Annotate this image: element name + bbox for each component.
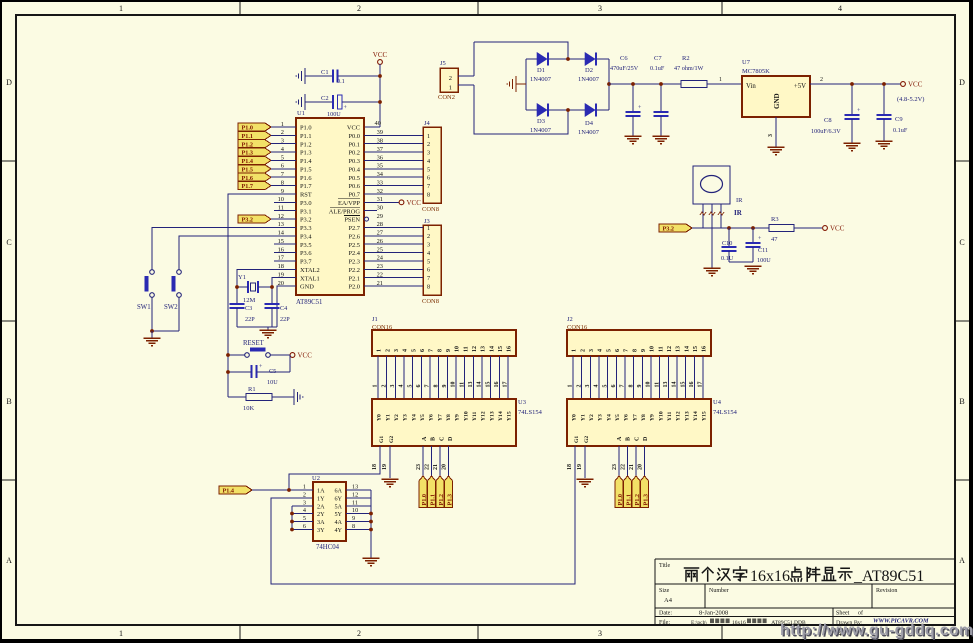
svg-text:30: 30	[377, 205, 383, 212]
svg-text:Y5: Y5	[420, 414, 426, 421]
svg-text:6: 6	[615, 349, 621, 352]
IR leg 3	[720, 204, 722, 228]
svg-text:7: 7	[620, 385, 626, 388]
mcu U1 AT89C51	[296, 110, 364, 306]
svg-text:0.1: 0.1	[337, 78, 345, 85]
svg-text:P2.7: P2.7	[348, 225, 360, 232]
svg-text:P1.5: P1.5	[300, 166, 312, 173]
svg-text:C1: C1	[321, 69, 329, 76]
svg-text:R3: R3	[771, 216, 779, 223]
svg-text:P0.1: P0.1	[348, 141, 360, 148]
svg-text:P1.4: P1.4	[223, 488, 235, 495]
svg-text:11: 11	[658, 346, 664, 352]
svg-text:22P: 22P	[245, 316, 255, 323]
svg-text:Y8: Y8	[641, 414, 647, 421]
svg-text:CON8: CON8	[422, 298, 439, 305]
junction bridge output	[607, 82, 611, 86]
wires U1 P0 bus to J4	[364, 135, 423, 194]
svg-text:GND: GND	[300, 284, 314, 291]
svg-text:Y6: Y6	[624, 414, 630, 421]
svg-text:G1: G1	[379, 436, 385, 443]
switch SW1	[137, 270, 154, 311]
svg-text:P0.7: P0.7	[348, 192, 360, 199]
svg-text:10: 10	[650, 346, 656, 352]
stub pin10	[274, 201, 296, 203]
svg-text:P2.1: P2.1	[348, 275, 360, 282]
svg-text:Y12: Y12	[481, 411, 487, 421]
ground IR middle leg	[704, 267, 721, 269]
svg-text:U1: U1	[297, 110, 305, 117]
wires U3 ABCD with pin numbers	[416, 446, 449, 476]
svg-text:5: 5	[407, 385, 413, 388]
svg-text:P1.3: P1.3	[300, 150, 312, 157]
svg-text:P2.6: P2.6	[348, 233, 360, 240]
ground SW	[151, 331, 153, 338]
resistor R3 47	[769, 216, 794, 243]
svg-text:C2: C2	[321, 95, 329, 102]
svg-text:Y9: Y9	[455, 414, 461, 421]
svg-text:9: 9	[442, 385, 448, 388]
svg-text:2: 2	[357, 629, 361, 638]
svg-text:http://www.gu-gddq.com: http://www.gu-gddq.com	[780, 622, 973, 639]
svg-text:7: 7	[427, 183, 430, 190]
svg-text:8: 8	[632, 349, 638, 352]
svg-text:P1.2: P1.2	[438, 494, 445, 506]
svg-text:IR: IR	[736, 197, 743, 204]
svg-text:Y13: Y13	[684, 411, 690, 421]
wire U4 G2 pin19 to ground	[584, 446, 586, 478]
svg-text:P0.4: P0.4	[348, 166, 360, 173]
svg-text:P1.1: P1.1	[242, 133, 254, 140]
svg-text:Y1: Y1	[385, 414, 391, 421]
svg-text:File:: File:	[659, 620, 670, 626]
svg-text:B: B	[959, 397, 964, 406]
ground R1 sideways	[293, 389, 295, 405]
junction Y1 right	[270, 285, 274, 289]
svg-text:_AT89C51: _AT89C51	[853, 568, 924, 585]
svg-text:P1.0: P1.0	[617, 494, 624, 506]
svg-text:Y12: Y12	[676, 411, 682, 421]
svg-text:U7: U7	[742, 59, 751, 66]
svg-text:RST: RST	[300, 192, 312, 199]
junction U2 pin9	[369, 520, 373, 524]
svg-text:P0.3: P0.3	[348, 158, 360, 165]
net label P3.2 (IR)	[659, 224, 692, 232]
svg-text:5: 5	[602, 385, 608, 388]
svg-text:P1.0: P1.0	[300, 125, 312, 132]
svg-text:15: 15	[680, 382, 686, 388]
svg-text:Y10: Y10	[658, 411, 664, 421]
capacitor C1 0.1 with ground	[296, 68, 380, 85]
svg-text:4: 4	[403, 349, 409, 352]
svg-text:D: D	[448, 436, 454, 441]
svg-text:6: 6	[427, 175, 430, 182]
svg-text:19: 19	[382, 464, 388, 470]
capacitor C9 0.1uF	[877, 84, 908, 141]
U2 left pin numbers	[303, 484, 306, 530]
junction SW1 bottom	[150, 329, 154, 333]
svg-text:A: A	[959, 556, 965, 565]
svg-text:P1.1: P1.1	[429, 494, 436, 506]
svg-text:P3.0: P3.0	[300, 200, 312, 207]
svg-text:Y1: Y1	[580, 414, 586, 421]
svg-text:1: 1	[373, 385, 379, 388]
connector J2 CON16	[567, 316, 711, 356]
net label P1.4	[219, 486, 252, 494]
svg-text:6: 6	[416, 385, 422, 388]
svg-text:P2.4: P2.4	[348, 250, 360, 257]
svg-text:2: 2	[580, 349, 586, 352]
svg-text:4: 4	[594, 385, 600, 388]
svg-text:3: 3	[427, 242, 430, 249]
svg-text:2: 2	[303, 492, 306, 499]
junction reset left	[226, 353, 230, 357]
svg-text:29: 29	[377, 213, 383, 220]
wire P1.4 to U2 pin1	[252, 489, 313, 491]
svg-text:1N4007: 1N4007	[578, 129, 600, 136]
svg-text:1: 1	[568, 385, 574, 388]
svg-text:P3.4: P3.4	[300, 233, 312, 240]
svg-text:D1: D1	[537, 67, 545, 74]
wire pin31 EA to VCC	[364, 201, 399, 203]
capacitor C6 470uF/25V	[610, 55, 642, 136]
svg-text:EA/VPP: EA/VPP	[338, 200, 360, 207]
svg-text:10: 10	[646, 382, 652, 388]
svg-text:P1.1: P1.1	[300, 133, 312, 140]
diode D2 1N4007	[578, 53, 600, 84]
svg-text:AT89C51: AT89C51	[296, 299, 322, 306]
svg-text:P0.6: P0.6	[348, 183, 360, 190]
svg-text:Y13: Y13	[489, 411, 495, 421]
svg-text:20: 20	[441, 464, 447, 470]
svg-text:4Y: 4Y	[334, 527, 342, 534]
svg-text:23: 23	[416, 464, 422, 470]
svg-text:P0.5: P0.5	[348, 175, 360, 182]
stub pin16	[274, 252, 296, 254]
svg-text:5: 5	[427, 258, 430, 265]
svg-text:13: 13	[663, 382, 669, 388]
svg-text:P1.7: P1.7	[300, 183, 312, 190]
svg-text:P1.6: P1.6	[242, 175, 254, 182]
svg-text:18: 18	[567, 464, 573, 470]
svg-text:7: 7	[429, 349, 435, 352]
svg-text:22P: 22P	[280, 316, 290, 323]
svg-text:P3.3: P3.3	[300, 225, 312, 232]
U1 left pin numbers	[278, 121, 285, 287]
svg-text:P1.4: P1.4	[300, 158, 312, 165]
svg-text:Y2: Y2	[394, 414, 400, 421]
svg-text:P1.2: P1.2	[634, 494, 641, 506]
junction C9	[882, 82, 886, 86]
svg-text:8-Jan-2008: 8-Jan-2008	[699, 610, 728, 617]
svg-text:Revision: Revision	[876, 588, 897, 594]
svg-text:P3.2: P3.2	[300, 217, 312, 224]
svg-text:CON8: CON8	[422, 206, 439, 213]
switch SW2	[164, 270, 181, 311]
svg-text:MC7805K: MC7805K	[742, 68, 770, 75]
svg-text:2: 2	[427, 233, 430, 240]
svg-text:1: 1	[572, 349, 578, 352]
svg-text:8: 8	[433, 385, 439, 388]
svg-text:IR: IR	[734, 209, 743, 217]
ground C11	[745, 265, 762, 267]
svg-text:8: 8	[437, 349, 443, 352]
power port VCC (U1)	[378, 60, 383, 65]
svg-text:13: 13	[676, 346, 682, 352]
IR receiver module	[693, 166, 743, 217]
svg-text:VCC: VCC	[908, 81, 923, 89]
power port VCC supply output	[901, 82, 906, 87]
svg-text:P2.0: P2.0	[348, 284, 360, 291]
svg-text:XTAL1: XTAL1	[300, 275, 320, 282]
svg-text:Y14: Y14	[693, 411, 699, 421]
svg-text:SW2: SW2	[164, 304, 178, 311]
svg-text:C9: C9	[895, 116, 903, 123]
svg-text:Y15: Y15	[507, 411, 513, 421]
svg-text:D: D	[959, 78, 965, 87]
svg-text:18: 18	[372, 464, 378, 470]
svg-text:23: 23	[612, 464, 618, 470]
svg-text:1: 1	[427, 133, 430, 140]
svg-text:U3: U3	[518, 399, 526, 406]
svg-text:47 ohm/1W: 47 ohm/1W	[674, 65, 704, 72]
svg-text:2: 2	[357, 4, 361, 13]
svg-text:C: C	[634, 437, 640, 441]
svg-text:Y8: Y8	[446, 414, 452, 421]
bridge rails	[525, 59, 527, 110]
svg-text:G1: G1	[574, 436, 580, 443]
svg-text:74LS154: 74LS154	[713, 409, 738, 416]
connector J1 CON16	[372, 316, 516, 356]
svg-text:P1.0: P1.0	[421, 494, 428, 506]
wires U2 pins3-6 tied	[292, 506, 313, 530]
svg-text:16: 16	[689, 382, 695, 388]
svg-text:P3.5: P3.5	[300, 242, 312, 249]
svg-text:P2.5: P2.5	[348, 242, 360, 249]
junction bridge top	[566, 57, 570, 61]
resistor R1 10K	[228, 386, 294, 412]
svg-text:10U: 10U	[267, 379, 278, 386]
svg-text:Y3: Y3	[598, 414, 604, 421]
svg-text:8: 8	[427, 191, 430, 198]
sheet title text	[685, 567, 925, 585]
svg-text:ALE/PROG: ALE/PROG	[329, 208, 361, 215]
svg-text:P1.2: P1.2	[300, 141, 312, 148]
svg-text:P3.2: P3.2	[242, 217, 254, 224]
svg-text:P1.7: P1.7	[242, 183, 254, 190]
svg-text:Vin: Vin	[746, 83, 756, 90]
svg-text:B: B	[626, 437, 632, 441]
wire R3 to VCC	[794, 227, 822, 229]
svg-text:1N4007: 1N4007	[530, 76, 552, 83]
svg-text:1Y: 1Y	[317, 495, 325, 502]
svg-text:Size: Size	[659, 588, 670, 594]
svg-text:P2.3: P2.3	[348, 259, 360, 266]
svg-text:Number: Number	[709, 588, 729, 594]
svg-text:P1.6: P1.6	[300, 175, 312, 182]
ground U7	[768, 146, 785, 148]
svg-text:CON16: CON16	[372, 324, 393, 331]
svg-text:Y7: Y7	[632, 414, 638, 421]
svg-text:12: 12	[472, 346, 478, 352]
junction U2 pin5	[290, 520, 294, 524]
svg-text:D3: D3	[537, 118, 545, 125]
svg-text:16: 16	[507, 346, 513, 352]
power port VCC (IR)	[823, 226, 828, 231]
decoder U3 74LS154	[372, 399, 543, 446]
svg-text:1: 1	[119, 4, 123, 13]
svg-text:3: 3	[598, 4, 602, 13]
capacitor C10 0.1U	[721, 228, 737, 262]
svg-text:47: 47	[771, 236, 778, 243]
U1 right pin names	[329, 125, 361, 291]
svg-text:1: 1	[119, 629, 123, 638]
capacitor C3 22P	[230, 304, 256, 327]
svg-text:D: D	[643, 436, 649, 441]
svg-text:2: 2	[427, 141, 430, 148]
wire XTAL2 pin18 to crystal	[237, 269, 296, 304]
connector J3 CON8	[422, 218, 441, 305]
junction U2 pin1	[287, 488, 291, 492]
svg-text:5A: 5A	[334, 503, 342, 510]
svg-text:J4: J4	[424, 120, 431, 127]
svg-text:Y4: Y4	[606, 414, 612, 421]
wire GND pin20 down	[277, 286, 296, 327]
svg-text:P1.4: P1.4	[242, 158, 254, 165]
svg-text:6A: 6A	[334, 487, 342, 494]
stub pin11	[274, 210, 296, 212]
junction C6	[631, 82, 635, 86]
svg-text:4: 4	[838, 4, 842, 13]
wire U3 G1 pin18 to U2	[289, 446, 380, 490]
svg-text:100U: 100U	[327, 111, 341, 118]
svg-text:17: 17	[503, 382, 509, 388]
svg-text:10K: 10K	[243, 405, 255, 412]
wire U7 pin3 to ground	[775, 117, 777, 147]
wires J1 to U3	[373, 356, 509, 399]
svg-text:6Y: 6Y	[334, 495, 342, 502]
svg-text:14: 14	[489, 346, 495, 352]
svg-text:P1.2: P1.2	[242, 141, 254, 148]
wire VCC to C5	[289, 355, 291, 372]
svg-text:1: 1	[377, 349, 383, 352]
ground crystal	[267, 327, 269, 330]
junction bridge bottom	[566, 108, 570, 112]
svg-text:RESET: RESET	[243, 340, 265, 347]
svg-text:1N4007: 1N4007	[530, 127, 552, 134]
svg-text:J5: J5	[440, 60, 446, 67]
junction C10	[727, 226, 731, 230]
svg-text:Y0: Y0	[377, 414, 383, 421]
wires U4 ABCD with pin numbers	[612, 446, 645, 476]
diode D4 1N4007	[578, 104, 600, 137]
file path text	[691, 619, 806, 627]
svg-text:74LS154: 74LS154	[518, 409, 543, 416]
watermark	[780, 622, 973, 641]
svg-text:Y2: Y2	[589, 414, 595, 421]
svg-text:21: 21	[629, 464, 635, 470]
capacitor C11 100U	[729, 228, 771, 264]
svg-text:11: 11	[459, 382, 465, 388]
junction C5 left	[226, 370, 230, 374]
svg-text:22: 22	[620, 464, 626, 470]
wire SW bottoms to ground	[151, 298, 153, 332]
svg-text:Y6: Y6	[429, 414, 435, 421]
junction C2-VCC	[378, 100, 382, 104]
svg-text:A: A	[422, 436, 428, 441]
svg-text:C10: C10	[722, 240, 732, 247]
svg-text:4: 4	[427, 158, 430, 165]
svg-text:100uF/6.3V: 100uF/6.3V	[811, 128, 841, 135]
stub pin30	[364, 210, 377, 212]
reset button RESET	[243, 340, 270, 357]
svg-text:C: C	[439, 437, 445, 441]
wire DC rail	[609, 83, 681, 85]
wire VCC to U1 pin 40	[379, 64, 381, 127]
junction U2 pin10	[369, 512, 373, 516]
svg-text:B: B	[6, 397, 11, 406]
wire pin13 to SW1	[152, 227, 296, 269]
svg-text:of: of	[858, 610, 863, 617]
svg-text:5: 5	[427, 166, 430, 173]
svg-text:15: 15	[485, 382, 491, 388]
svg-text:16: 16	[494, 382, 500, 388]
svg-text:Y3: Y3	[403, 414, 409, 421]
IR pin squiggles	[700, 212, 706, 215]
svg-text:Sheet: Sheet	[836, 611, 850, 617]
svg-text:5: 5	[411, 349, 417, 352]
svg-text:6: 6	[611, 385, 617, 388]
svg-text:P1.1: P1.1	[625, 494, 632, 506]
capacitor C4 22P	[265, 304, 291, 327]
svg-text:6: 6	[420, 349, 426, 352]
svg-text:VCC: VCC	[407, 199, 422, 207]
svg-text:Y14: Y14	[498, 411, 504, 421]
capacitor C5 10U	[228, 364, 290, 386]
svg-text:A: A	[6, 556, 12, 565]
wire U7 output to VCC	[810, 83, 901, 85]
svg-text:3: 3	[390, 385, 396, 388]
junction U2 pin4	[290, 512, 294, 516]
svg-text:Y7: Y7	[437, 414, 443, 421]
ground U4 G2	[577, 478, 594, 480]
net labels P1.0-P1.3 under U3	[419, 476, 427, 508]
crystal Y1 12M	[237, 274, 272, 304]
wire J5 pin2 to bridge top	[458, 75, 474, 77]
wire P3.2 to IR net	[692, 227, 769, 229]
ground C8	[844, 142, 861, 144]
svg-text:2: 2	[576, 385, 582, 388]
svg-text:16x16: 16x16	[732, 620, 746, 626]
svg-text:74HC04: 74HC04	[316, 544, 340, 551]
svg-text:2A: 2A	[317, 503, 325, 510]
svg-text:3: 3	[598, 629, 602, 638]
svg-text:C3: C3	[245, 305, 252, 312]
svg-text:Y1: Y1	[238, 274, 246, 281]
regulator U7 MC7805K	[742, 59, 810, 117]
svg-text:G2: G2	[584, 436, 590, 443]
svg-text:Y5: Y5	[615, 414, 621, 421]
svg-text:2: 2	[385, 349, 391, 352]
svg-text:22: 22	[424, 464, 430, 470]
svg-text:20: 20	[637, 464, 643, 470]
svg-text:Y15: Y15	[702, 411, 708, 421]
junction Y1 left	[235, 285, 239, 289]
svg-text:D2: D2	[585, 67, 593, 74]
wires J2 to U4	[568, 356, 704, 399]
svg-text:VCC: VCC	[373, 51, 388, 59]
svg-text:100U: 100U	[757, 257, 771, 264]
